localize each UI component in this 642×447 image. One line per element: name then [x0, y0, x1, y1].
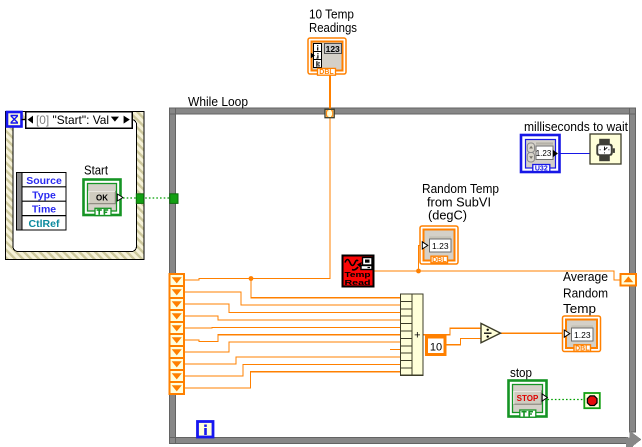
while loop corner arrow [626, 431, 642, 447]
boolean button stop [509, 381, 548, 418]
event data node [17, 173, 67, 231]
wire constant 10 to divide [445, 338, 481, 344]
tunnel auto-index on while loop top border [325, 109, 334, 117]
wire boolean dotted Start to loop [123, 197, 170, 199]
numeric control milliseconds to wait U32 [521, 135, 560, 173]
svg-text:+: + [414, 330, 420, 342]
svg-text:milliseconds to wait: milliseconds to wait [524, 119, 628, 134]
tunnel green on while loop border [170, 194, 178, 204]
wire SR3 to sum input 3 [184, 304, 401, 313]
numeric indicator Random Temp DBL [420, 226, 458, 264]
wire SR5 to sum input 5 [184, 326, 401, 329]
wire SR6 to sum input 6 [184, 335, 401, 342]
event structure header [26, 112, 133, 128]
wire array DBL indicator to tunnel [329, 75, 331, 111]
numeric constant 10 [427, 337, 446, 355]
wire SR10 to sum input 11 [184, 372, 401, 388]
wire SR2 to sum input 2 [184, 292, 401, 305]
svg-text:Start: Start [84, 162, 108, 177]
wire SR7 to sum input 7 [184, 342, 401, 352]
iteration terminal i [198, 422, 214, 438]
event structure timeout terminal [7, 112, 26, 127]
svg-text:U32: U32 [535, 166, 548, 173]
svg-text:OK: OK [96, 193, 108, 202]
event structure frame [6, 112, 145, 260]
wire U32 control to wait function [560, 153, 591, 155]
wire SR1 to junction to tunnel [184, 279, 331, 281]
numeric indicator Average Random Temp DBL [563, 316, 601, 353]
svg-text:1.23: 1.23 [536, 149, 552, 158]
svg-text:[0] "Start": Val: [0] "Start": Val [36, 113, 109, 127]
conditional terminal stop if true [584, 393, 600, 408]
wire branch up to Random Temp indicator [419, 245, 423, 271]
wire divide output to Average indicator [501, 332, 563, 334]
wire sum output to divide [423, 328, 481, 335]
svg-text:10: 10 [430, 342, 442, 354]
svg-text:Type: Type [32, 189, 56, 201]
compound arithmetic add node [401, 294, 424, 375]
svg-text:Average: Average [563, 269, 608, 284]
wire stub sum input 8 [390, 349, 401, 351]
svg-text:123: 123 [326, 44, 340, 54]
wire Temp Read output to right shift register [374, 271, 621, 280]
svg-text:Temp: Temp [563, 301, 596, 316]
svg-text:Readings: Readings [309, 20, 357, 35]
array indicator 10 Temp Readings [308, 38, 346, 76]
wire scalar tunnel down into loop [329, 118, 331, 280]
svg-text:While Loop: While Loop [188, 94, 248, 109]
svg-text:1.23: 1.23 [432, 241, 449, 251]
boolean button Start (OK) [84, 180, 123, 216]
function Wait ms [590, 134, 621, 164]
wire SR4 to sum input 4 [184, 316, 401, 320]
shift register right [621, 274, 637, 286]
svg-text:1.23: 1.23 [574, 330, 591, 340]
svg-text:Source: Source [26, 175, 62, 187]
svg-text:DBL: DBL [319, 69, 334, 76]
wire SR9 to sum input 10 [184, 364, 401, 376]
svg-text:Time: Time [32, 204, 56, 216]
svg-text:Read: Read [345, 278, 372, 287]
svg-text:stop: stop [510, 365, 532, 380]
wire boolean dotted stop to conditional terminal [548, 399, 585, 401]
svg-text:DBL: DBL [575, 346, 590, 353]
svg-text:STOP: STOP [517, 394, 539, 403]
junction dot SR1 net [249, 276, 254, 281]
junction dot Temp Read net [416, 269, 421, 274]
subVI Temp Read [343, 256, 374, 287]
tunnel green on event structure border [136, 194, 143, 204]
divide node [481, 323, 501, 342]
svg-text:DBL: DBL [432, 257, 447, 264]
svg-text:CtlRef: CtlRef [29, 218, 60, 230]
svg-text:(degC): (degC) [428, 208, 467, 223]
while loop border [170, 108, 636, 444]
wire junction branch to sum input 1 [251, 279, 401, 298]
svg-text:Random: Random [563, 285, 608, 300]
wire SR8 to sum input 9 [184, 357, 401, 364]
shift register stack left [170, 274, 185, 394]
